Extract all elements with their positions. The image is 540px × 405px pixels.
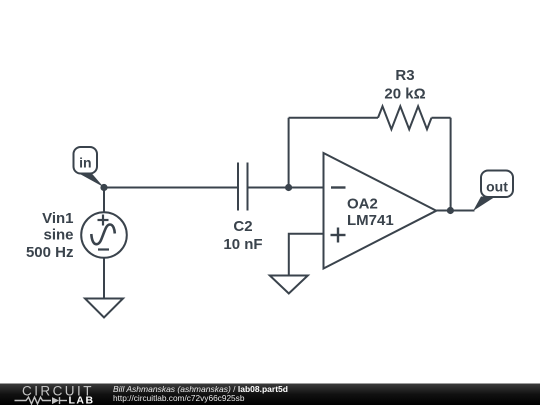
- flag out: [473, 171, 513, 212]
- svg-text:500 Hz: 500 Hz: [26, 244, 74, 261]
- node output junction: [447, 207, 454, 214]
- CircuitLab logo: [15, 383, 95, 405]
- wire in node down to source: [103, 188, 105, 214]
- wire feedback row to resistor: [289, 117, 378, 119]
- svg-text:http://circuitlab.com/c72vy66c: http://circuitlab.com/c72vy66c925sb: [113, 393, 245, 403]
- wire capacitor to op-amp minus input: [248, 187, 324, 189]
- wire source to ground: [103, 258, 105, 299]
- svg-text:20 kΩ: 20 kΩ: [384, 85, 425, 102]
- wire in to capacitor: [104, 187, 238, 189]
- voltage source Vin1: [26, 210, 127, 261]
- node feedback junction: [285, 184, 292, 191]
- svg-text:R3: R3: [395, 67, 414, 84]
- svg-text:in: in: [79, 155, 91, 171]
- svg-text:Vin1: Vin1: [42, 210, 73, 227]
- svg-text:LM741: LM741: [347, 212, 394, 229]
- wire junction up to feedback row: [288, 118, 290, 188]
- svg-text:C2: C2: [233, 218, 252, 235]
- ground under Vin1: [85, 299, 123, 318]
- svg-text:sine: sine: [43, 227, 73, 244]
- svg-text:OA2: OA2: [347, 196, 378, 213]
- flag in: [74, 147, 104, 187]
- svg-text:10 nF: 10 nF: [223, 236, 262, 253]
- svg-text:LAB: LAB: [69, 394, 95, 405]
- wire op-amp output: [436, 210, 474, 212]
- op-amp OA2: [324, 153, 437, 269]
- svg-text:out: out: [486, 179, 508, 195]
- wire resistor to right drop: [432, 117, 451, 119]
- capacitor C2: [223, 163, 262, 254]
- ground at plus input: [270, 276, 308, 294]
- wire right drop to output node: [450, 118, 452, 211]
- resistor R3: [378, 67, 432, 129]
- node in junction: [100, 184, 107, 191]
- wire plus input: [289, 234, 324, 276]
